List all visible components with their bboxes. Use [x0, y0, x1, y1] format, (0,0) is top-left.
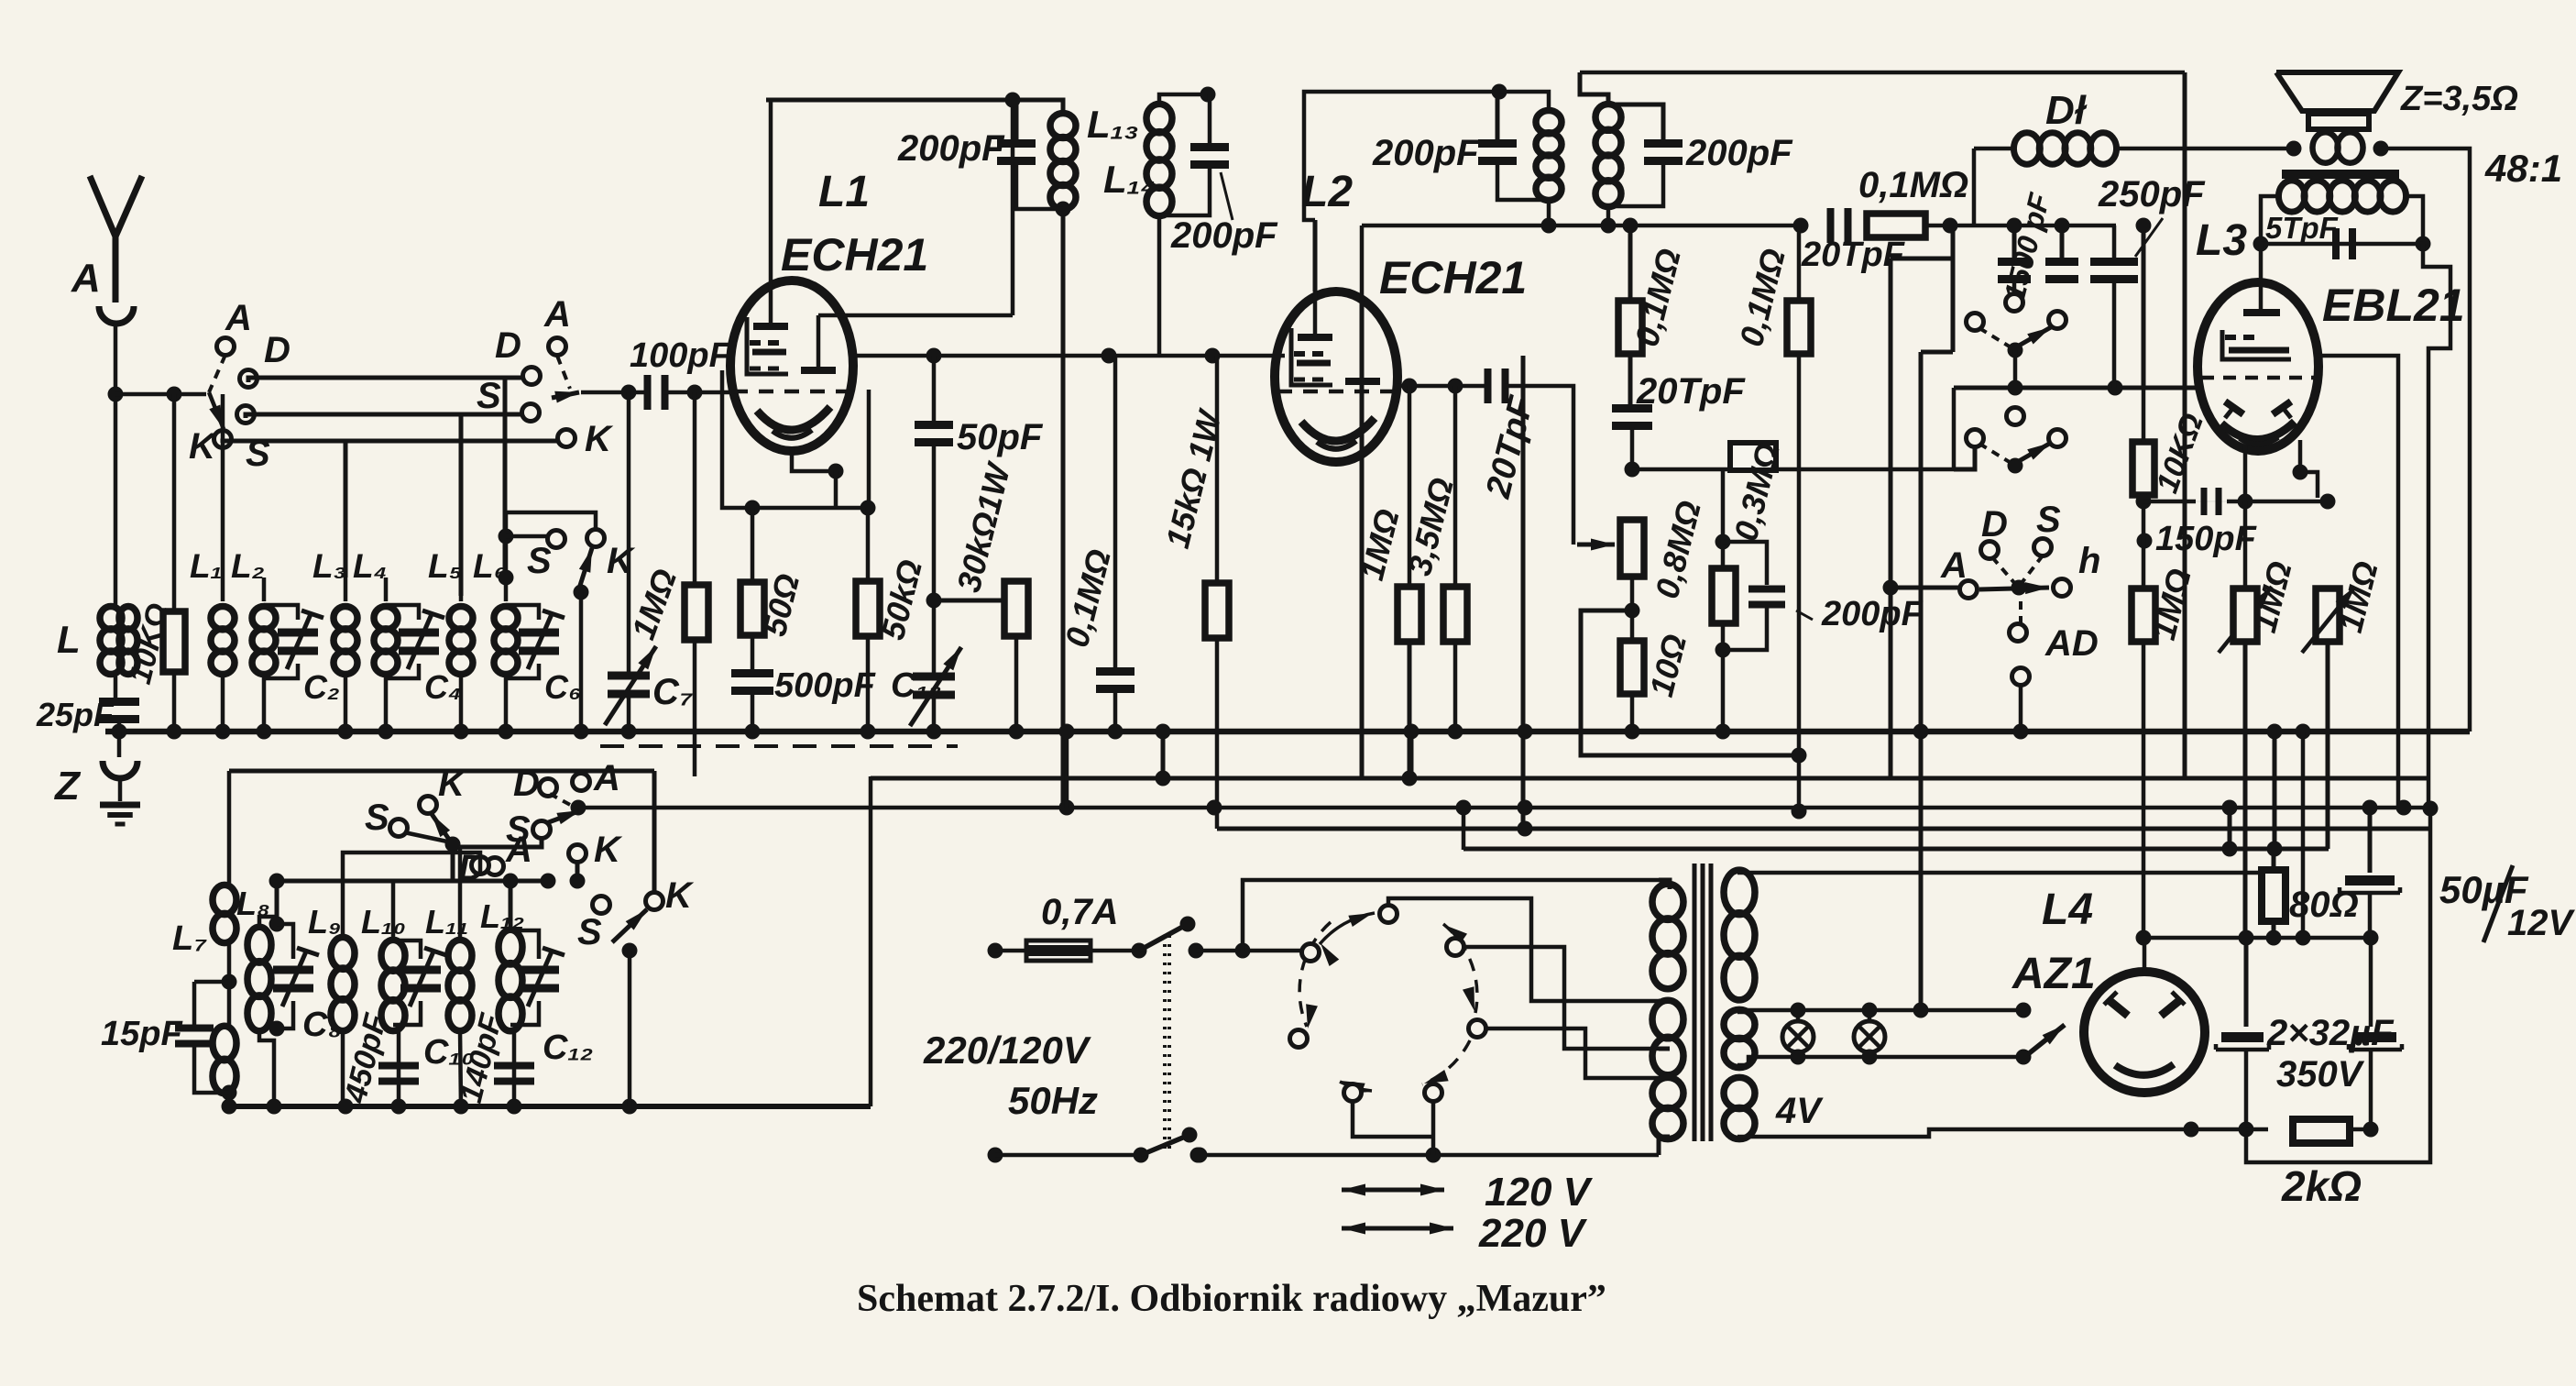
- svg-text:L₂: L₂: [231, 547, 265, 585]
- svg-text:L₃: L₃: [312, 547, 346, 585]
- gang dashed link C7-C13: [600, 744, 958, 748]
- svg-text:80Ω: 80Ω: [2289, 885, 2359, 925]
- node avc: [1625, 462, 1640, 478]
- capacitor 200pF (switch): [0, 0, 1, 1]
- wire 250pF stub: [2112, 225, 2117, 388]
- wire band-switch feed: [115, 392, 206, 397]
- wire L10 bottom: [393, 1030, 399, 1106]
- node B3 a: [1156, 724, 1171, 786]
- wire L9 bottom: [341, 1030, 345, 1106]
- wire N to selector: [1431, 1098, 1436, 1155]
- svg-text:K: K: [594, 830, 623, 870]
- wire L4 top: [384, 577, 389, 601]
- wire L12 bottom: [510, 1030, 514, 1106]
- switch S8 contact D: [472, 857, 489, 874]
- coil L4: [374, 607, 398, 675]
- label L7: [172, 919, 207, 958]
- transformer secondary heater: [1724, 1009, 1755, 1067]
- wire L1 bottom to bus: [221, 674, 225, 731]
- label 1MOhm out-c: [2331, 557, 2385, 636]
- svg-text:L₁: L₁: [190, 547, 223, 585]
- label 500pF: [774, 666, 877, 705]
- wire 50pF to C13: [932, 444, 937, 676]
- wire y925 row: [0, 0, 1, 1]
- capacitor 20TpF avc: [1612, 404, 1652, 430]
- label L10: [361, 903, 406, 940]
- label L2 (coil): [1301, 168, 1353, 216]
- coil L11: [448, 940, 472, 1030]
- node speaker right: [2373, 141, 2389, 157]
- switch S5 contact b: [2049, 430, 2066, 447]
- switch S4 arm: [1979, 327, 2051, 358]
- label 50uF/12V: [2439, 865, 2575, 943]
- wire bank rail6: [503, 874, 519, 931]
- trimmer capacitor C10: [393, 940, 446, 1025]
- selector contact lowleft: [1290, 1030, 1308, 1048]
- label L12: [480, 897, 524, 935]
- label 15pF: [101, 1015, 183, 1053]
- wire 0.1M drop: [1113, 356, 1118, 668]
- label L&#8322;: [231, 547, 265, 585]
- svg-text:2×32µF: 2×32µF: [2266, 1013, 2395, 1053]
- wire HT drop AZ1: [2136, 218, 2152, 389]
- coil L secondary: [119, 607, 137, 675]
- wire K-band row: [223, 441, 559, 443]
- capacitor 250pF: [2090, 225, 2138, 283]
- wire U2 grid lead: [1313, 220, 1318, 291]
- svg-text:L1: L1: [818, 168, 870, 216]
- wire avc row: [1632, 467, 1954, 472]
- switch S7 contact S: [365, 797, 408, 838]
- label 200pF (L2): [1372, 133, 1480, 173]
- svg-text:0,1MΩ: 0,1MΩ: [1858, 165, 1968, 205]
- node L14 top: [1200, 87, 1216, 103]
- node bus 1540: [1404, 724, 1420, 740]
- resistor 1MOhm out-b: [2233, 588, 2257, 642]
- wire U1 g2 riser: [1011, 100, 1015, 315]
- label 10KOhm (U3): [2137, 409, 2210, 548]
- wire bank rail5: [269, 874, 549, 889]
- wire S3 arm to bus: [579, 592, 584, 731]
- node 1M a bus2: [2296, 724, 2311, 740]
- tube U3 anode arc: [2221, 422, 2295, 440]
- svg-text:S: S: [527, 541, 552, 581]
- tube U1 grid bar: [753, 280, 788, 326]
- wire L2 bottom to bus: [262, 674, 267, 731]
- svg-text:220 V: 220 V: [1478, 1211, 1588, 1256]
- node L6 trimmer tap: [499, 570, 514, 586]
- label A (antenna): [71, 256, 101, 301]
- wire bank2 riser: [869, 776, 873, 1106]
- node det row c: [1793, 218, 1809, 234]
- node 1M c bus: [0, 0, 1, 1]
- wire cathode drop U1: [0, 0, 1, 1]
- capacitor 500pF: [731, 669, 773, 695]
- wire sec heater bottom: [1737, 1057, 2023, 1065]
- wire L4 bottom to bus: [384, 674, 389, 731]
- svg-text:0,7A: 0,7A: [1041, 892, 1119, 932]
- wire S7 drop: [451, 844, 455, 881]
- wire IF2 cap bot: [1608, 162, 1663, 206]
- terminal mains L: [988, 943, 1003, 959]
- wire S9 row: [0, 0, 1, 1]
- wire 1669 riser: [0, 0, 1, 1]
- wire avc cap bot: [1630, 427, 1635, 467]
- wire L11 top: [458, 847, 463, 940]
- node U2 anode a: [1402, 379, 1418, 394]
- wire 2433 stub: [2222, 800, 2238, 850]
- label 10Ohm: [1642, 631, 1694, 700]
- svg-text:D: D: [264, 330, 290, 370]
- label ECH21 (U2): [1379, 252, 1527, 303]
- wire sec 4V bottom: [1737, 1129, 2191, 1137]
- wire L13 bottom drop: [1061, 209, 1066, 808]
- node bus 1164: [1059, 724, 1075, 740]
- bus B6: [1463, 847, 2329, 852]
- label EBL21: [2322, 280, 2465, 331]
- resistor 0,3MOhm body: [1712, 568, 1736, 623]
- transformer primary 2: [1652, 1000, 1683, 1075]
- label L&#8321;: [190, 547, 223, 585]
- svg-text:h: h: [2078, 541, 2100, 581]
- wire 1M bus: [1408, 642, 1412, 778]
- selector arc: [1299, 913, 1477, 1094]
- node bank2 d: [391, 1099, 407, 1115]
- svg-text:L3: L3: [2196, 216, 2247, 265]
- label ECH21 (U1): [781, 229, 928, 280]
- node L13 top: [1005, 93, 1021, 108]
- label 25pF: [36, 696, 115, 733]
- wire mains L: [995, 949, 1026, 953]
- svg-text:50pF: 50pF: [957, 417, 1044, 457]
- resistor 1MOhm (U2): [1398, 587, 1421, 642]
- label 200pF avc: [1796, 595, 1924, 633]
- label 1MOhm (C7): [624, 564, 684, 643]
- wire 10K U3 bottom: [2142, 495, 2146, 938]
- wire L14 cap bottom: [1159, 166, 1210, 215]
- node 100pF right: [687, 385, 703, 401]
- node heater top right: [2016, 1003, 2032, 1018]
- resistor 50Ohm: [740, 582, 764, 635]
- wire Dl left riser: [1974, 148, 2014, 225]
- tube U3 EBL21 envelope: [2198, 282, 2318, 451]
- bus B3: [871, 776, 2428, 781]
- svg-text:D: D: [1981, 504, 2008, 544]
- tube U3 dashed: [2201, 376, 2315, 380]
- wire outer loop2: [2246, 808, 2430, 1162]
- variable capacitor C7: [605, 646, 656, 725]
- svg-text:L₉: L₉: [308, 903, 341, 940]
- node 03M top: [1716, 534, 1731, 550]
- wire pot-10ohm: [1630, 577, 1635, 640]
- node L7 bottom: [222, 1085, 237, 1101]
- wire osc cap right: [1504, 386, 1573, 544]
- coil L3 secondary: [2278, 181, 2406, 212]
- svg-text:120 V: 120 V: [1485, 1170, 1594, 1215]
- switch S3 contact K: [587, 530, 605, 547]
- label 2x32uF: [2266, 1013, 2395, 1053]
- node bus Z: [112, 724, 127, 740]
- resistor 3,5MOhm: [1443, 587, 1467, 642]
- label C&#8324;: [424, 668, 461, 706]
- wire 1M drop: [1408, 386, 1412, 587]
- wire 100pF to tube: [663, 390, 733, 395]
- svg-text:L2: L2: [1301, 168, 1353, 216]
- wire selector r1 tap: [0, 0, 1, 1]
- svg-text:A: A: [543, 294, 571, 335]
- node C13 tap: [926, 593, 942, 609]
- svg-text:350V: 350V: [2276, 1054, 2365, 1094]
- ground Z: [100, 805, 140, 824]
- label 120 V: [1485, 1170, 1594, 1215]
- wire L6 top rail: [506, 512, 596, 577]
- wire 220V arrows: [1342, 1223, 1453, 1235]
- wire long riser a: [0, 0, 1, 1]
- wire 1M grid bottom: [693, 640, 697, 776]
- capacitor 25pF: [99, 698, 139, 723]
- wire L5 bottom to bus: [459, 674, 464, 731]
- wire det row: [1362, 224, 1801, 228]
- coil L3: [334, 607, 357, 675]
- lamp dial 1: [1782, 1003, 1814, 1065]
- node bank2 g: [622, 1099, 638, 1115]
- svg-text:20TpF: 20TpF: [1636, 371, 1746, 412]
- label L1 (osc coil): [818, 168, 870, 216]
- wire 1M out-c arrow: [2302, 587, 2355, 653]
- node 30k bus: [1009, 724, 1025, 740]
- capacitor 20TpF det: [1827, 208, 1852, 243]
- tube U3 cage: [2222, 330, 2291, 359]
- node L3 bus: [338, 724, 354, 740]
- tube U1 cage: [747, 317, 788, 374]
- resistor 0,8MOhm pot: [1620, 520, 1644, 577]
- coil L10: [381, 940, 405, 1030]
- wire bank top rail b: [229, 771, 654, 893]
- label 250pF: [2098, 174, 2206, 257]
- wire L5 top: [459, 577, 464, 601]
- svg-text:ECH21: ECH21: [781, 229, 928, 280]
- node L6 tap upper: [499, 529, 514, 544]
- capacitor 5TpF: [2332, 228, 2356, 259]
- wire L5 top link: [459, 577, 464, 596]
- trimmer capacitor C8: [273, 948, 319, 1006]
- wire 25pF to bus: [117, 720, 122, 731]
- wire S2 arm to grid: [581, 390, 650, 395]
- switch mains top: [1132, 917, 1204, 959]
- wire bottom right row: [2191, 1127, 2246, 1132]
- coil L14: [1146, 104, 1172, 215]
- label 350V: [2276, 1054, 2365, 1094]
- wire L6 bottom to bus: [504, 674, 509, 731]
- speaker magnet: [2308, 114, 2369, 129]
- label 0,8MOhm: [1648, 497, 1708, 602]
- wire L11 bottom: [460, 1030, 461, 1106]
- coil IF2 secondary: [1595, 104, 1621, 206]
- label L9: [308, 903, 341, 940]
- node B4 b: [1207, 800, 1222, 816]
- switch S7 contact K: [420, 764, 468, 814]
- capacitor 200pF L14: [1190, 143, 1229, 169]
- wire C13 to bus: [932, 697, 937, 731]
- capacitor 0.1M bypass: [1096, 667, 1135, 693]
- coil L8: [247, 927, 271, 1030]
- coil L1: [211, 607, 235, 675]
- switch S6 contact S: [2034, 539, 2052, 556]
- switch S2 contact A: [549, 338, 566, 356]
- svg-text:5TpF: 5TpF: [2265, 211, 2339, 245]
- capacitor 450pF: [378, 1036, 419, 1085]
- node mains N b: [1426, 1148, 1441, 1163]
- wire mains N right: [1198, 1153, 1659, 1158]
- speaker cone: [2276, 72, 2398, 111]
- wire bank arm rail: [577, 808, 579, 818]
- node heater mid: [1913, 1003, 1929, 1018]
- wire 50k bottom: [866, 636, 871, 731]
- wire 03M bottom stub: [1721, 623, 1726, 731]
- label D (S8): [458, 848, 485, 888]
- wire sec heater top: [1737, 1010, 2023, 1012]
- switch S2 contact D: [523, 368, 541, 385]
- node 150pF a: [2238, 494, 2253, 510]
- wire 1664 riser: [1521, 356, 1526, 829]
- label 1MOhm out-a: [2144, 565, 2198, 643]
- node C13 bus: [926, 724, 942, 740]
- wire 150pF drop: [0, 0, 1, 1]
- wire avc resL top: [1623, 218, 1639, 302]
- wire det bus row854: [1360, 302, 1365, 778]
- node 10ohm bus: [1625, 724, 1640, 740]
- svg-text:48:1: 48:1: [2484, 147, 2562, 190]
- label 0,1MOhm avc-R: [1732, 245, 1792, 350]
- label K (S1): [189, 426, 218, 467]
- wire L2 tank top: [1499, 92, 1549, 111]
- switch S2 contact K: [558, 430, 575, 447]
- switch S9 contact S: [506, 809, 551, 850]
- node g2 bus b: [1102, 348, 1117, 364]
- switch S5 arm: [1979, 443, 2051, 474]
- wire L1 top up: [221, 394, 225, 577]
- node det row a: [1541, 218, 1557, 234]
- tube U2 cathode arc: [1317, 441, 1356, 449]
- node outer top: [2423, 801, 2439, 817]
- switch S6 contact AD: [2010, 624, 2027, 642]
- svg-text:S: S: [365, 797, 389, 838]
- capacitor 50pF: [915, 421, 953, 446]
- svg-text:ECH21: ECH21: [1379, 252, 1527, 303]
- node 5TpF right: [2416, 236, 2431, 252]
- svg-text:AZ1: AZ1: [2011, 950, 2096, 998]
- label S (S3): [527, 541, 552, 581]
- svg-text:250pF: 250pF: [2098, 174, 2206, 214]
- tube AZ1 filament arc: [2115, 1064, 2174, 1075]
- svg-text:200pF: 200pF: [1821, 595, 1924, 633]
- node 0.1M bus: [1108, 724, 1124, 740]
- switch S7 blade: [404, 832, 447, 841]
- node 5TpF left: [2253, 236, 2269, 252]
- svg-text:50Hz: 50Hz: [1008, 1079, 1098, 1122]
- label 3,5MOhm: [1400, 474, 1461, 579]
- label C13: [891, 666, 942, 705]
- wire 50pF drop: [932, 356, 937, 422]
- node L2 bus: [257, 724, 272, 740]
- node mains top: [1235, 943, 1251, 959]
- wire selector feed: [1243, 880, 1659, 951]
- svg-text:L₇: L₇: [172, 919, 207, 958]
- wire bank rail4: [0, 0, 1, 1]
- svg-text:L4: L4: [2042, 885, 2093, 934]
- node det-EBL: [2108, 380, 2123, 396]
- wire L7 bottom: [227, 1093, 232, 1106]
- wire avc row riser: [1952, 388, 1957, 469]
- selector contact left: [1302, 944, 1320, 962]
- wire EBL right zig: [2423, 244, 2450, 808]
- capacitor 50uF: [2340, 849, 2400, 938]
- label L4: [2042, 885, 2093, 934]
- trimmer capacitor C12: [510, 930, 565, 1025]
- svg-text:A: A: [225, 298, 252, 338]
- wire S10 K riser: [0, 0, 1, 1]
- label L11: [425, 903, 468, 940]
- node L13 bottom: [1056, 202, 1071, 217]
- node S4 junction: [2008, 380, 2023, 396]
- svg-text:K: K: [607, 541, 636, 581]
- node pot bottom: [1625, 603, 1640, 619]
- wire D-band row: [248, 378, 523, 382]
- label 200pF (L13): [897, 128, 1005, 169]
- transformer secondary 4V: [1724, 1077, 1755, 1138]
- svg-text:K: K: [665, 875, 695, 916]
- wire U2 k leads: [0, 0, 1, 1]
- wire 1164 riser: [1065, 731, 1069, 808]
- wire S6 A row: [1891, 586, 1960, 590]
- wire 120V arrows: [1342, 1184, 1444, 1196]
- wire g2 bus tubes: [853, 354, 1285, 358]
- label A (S1): [225, 298, 252, 338]
- tube U1 frame left: [722, 370, 869, 508]
- node bank2 e: [454, 1099, 469, 1115]
- resistor 80Ohm: [2262, 870, 2286, 921]
- node det row b: [1601, 218, 1617, 234]
- switch S6 contact h: [2054, 579, 2071, 597]
- svg-text:L₅: L₅: [428, 547, 462, 585]
- wire S10 arm drop: [628, 951, 632, 1106]
- node y1023 d: [2296, 930, 2311, 946]
- svg-text:A: A: [71, 256, 101, 301]
- capacitor 140pF: [494, 1062, 534, 1085]
- wire bank K rail: [0, 0, 1, 1]
- label C&#8326;: [544, 668, 581, 706]
- wire L2 box: [1304, 92, 1499, 220]
- capacitor 100pF: [644, 375, 669, 410]
- svg-text:Schemat 2.7.2/I. Odbiornik: Schemat 2.7.2/I. Odbiornik radiowy „Mazu…: [857, 1278, 1606, 1320]
- label 20TpF rot: [1479, 391, 1541, 502]
- node mains N a: [1192, 1148, 1208, 1163]
- switch S6 contact A: [1960, 581, 1978, 599]
- label 10kOhm: [123, 599, 176, 687]
- resistor 0,3MOhm: [1730, 443, 1776, 470]
- wire C13 link right: [934, 581, 1016, 600]
- resistor 10kOhm: [163, 611, 185, 672]
- wire 3.5M bus: [1453, 642, 1458, 731]
- node L8 top: [269, 917, 285, 932]
- wire L2 cap top: [1496, 92, 1500, 142]
- label 50kOhm: [873, 555, 929, 643]
- node grid wire left: [621, 385, 637, 401]
- label 450pF: [338, 1009, 394, 1107]
- tube U3 grid bar: [2243, 309, 2280, 316]
- svg-text:D: D: [495, 325, 521, 366]
- wire S5 box: [1954, 446, 1975, 469]
